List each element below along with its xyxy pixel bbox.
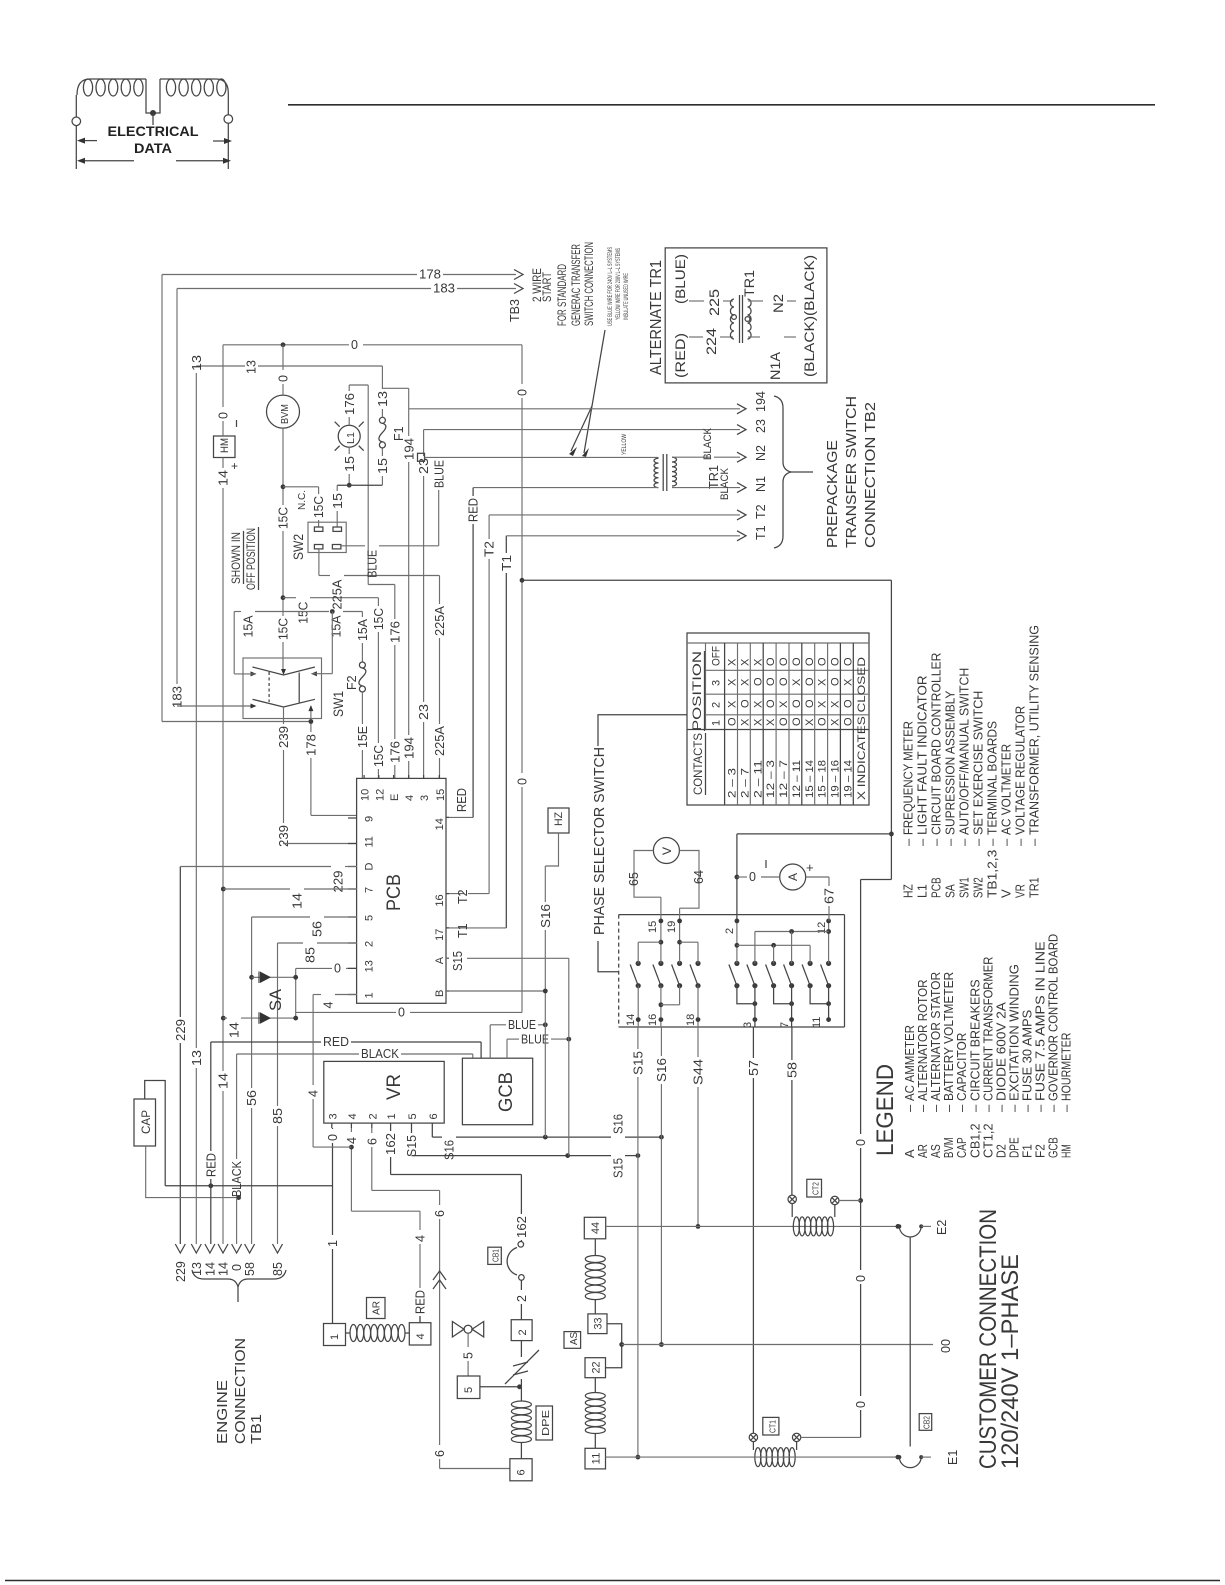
- wire net 0 to A meter minus: [737, 876, 747, 878]
- svg-text:65: 65: [627, 872, 641, 886]
- svg-text:S16: S16: [443, 1140, 457, 1160]
- svg-text:SWITCH CONNECTION: SWITCH CONNECTION: [582, 242, 596, 326]
- logo electrical-data coil right winding: [160, 79, 228, 115]
- wire 00 line (AS output): [622, 1344, 933, 1346]
- battery voltmeter BVM: [267, 395, 300, 428]
- svg-text:0: 0: [351, 338, 358, 352]
- svg-text:X: X: [765, 718, 777, 726]
- svg-text:ELECTRICAL: ELECTRICAL: [108, 124, 199, 139]
- hourmeter HM box: [214, 436, 236, 458]
- wire net 0 right bus vertical: [521, 345, 523, 384]
- svg-text:5: 5: [407, 1113, 419, 1119]
- svg-text:E1: E1: [946, 1450, 960, 1465]
- svg-text:5: 5: [462, 1352, 476, 1359]
- svg-text:BLACK: BLACK: [702, 427, 714, 460]
- switch SW2 pins: [314, 527, 323, 531]
- wire CAP top jog: [145, 1081, 166, 1186]
- svg-text:0: 0: [334, 962, 341, 976]
- svg-text:CONNECTION: CONNECTION: [233, 1338, 249, 1444]
- svg-text:HZ: HZ: [901, 884, 916, 898]
- svg-text:SW1: SW1: [957, 877, 972, 898]
- svg-text:0: 0: [516, 778, 530, 785]
- svg-text:SUPRESSION ASSEMBLY: SUPRESSION ASSEMBLY: [943, 690, 958, 835]
- label DPE box: [536, 1406, 553, 1440]
- svg-text:–: –: [1013, 838, 1028, 846]
- wire net 65 V meter: [634, 851, 661, 898]
- svg-text:2: 2: [711, 702, 723, 708]
- svg-text:176: 176: [343, 393, 357, 415]
- svg-text:12 – 11: 12 – 11: [791, 760, 803, 798]
- svg-text:85: 85: [271, 1262, 285, 1276]
- svg-text:162: 162: [515, 1216, 529, 1238]
- svg-text:0: 0: [749, 870, 756, 884]
- svg-text:TB1: TB1: [249, 1414, 265, 1444]
- label AR box: [367, 1298, 386, 1319]
- svg-text:14: 14: [203, 1262, 217, 1276]
- transformer TR1 core: [662, 454, 664, 491]
- svg-text:–: –: [999, 838, 1014, 846]
- wire net 0 branch to meters (dark): [522, 579, 891, 581]
- svg-text:TB3: TB3: [508, 299, 522, 322]
- svg-text:13: 13: [190, 355, 204, 371]
- svg-text:5: 5: [463, 1387, 475, 1393]
- svg-text:O: O: [804, 677, 816, 686]
- suppression assembly SA diode 1: [252, 976, 296, 978]
- hourmeter polarity marks: [236, 420, 238, 427]
- svg-text:AR: AR: [371, 1301, 383, 1315]
- wire net 15C branch to PCB pin 12: [283, 597, 296, 599]
- svg-text:5: 5: [364, 915, 376, 921]
- svg-text:16: 16: [647, 1014, 659, 1026]
- svg-text:15: 15: [376, 458, 390, 474]
- svg-text:–: –: [957, 838, 972, 846]
- circuit breaker CB1: [518, 1242, 524, 1248]
- svg-text:S15: S15: [632, 1051, 646, 1075]
- contacts table grid: [687, 642, 869, 644]
- svg-text:F2: F2: [345, 675, 359, 690]
- svg-text:S16: S16: [612, 1114, 626, 1134]
- selector wire 57 pin 3: [737, 986, 755, 1004]
- terminal TB2 T2 chevron: [737, 510, 746, 520]
- svg-text:–: –: [971, 838, 986, 846]
- svg-text:SHOWN IN: SHOWN IN: [229, 532, 243, 584]
- wire net 0 VR pin3 to AR box 1: [332, 1128, 334, 1129]
- svg-text:T1: T1: [754, 525, 768, 540]
- svg-text:V: V: [999, 889, 1014, 898]
- wire net RED vertical to TB1-14: [210, 1042, 212, 1151]
- wire net 176 from L1 top: [348, 385, 350, 391]
- wire net 0/1 VR pin 3 horizontal: [165, 1185, 332, 1187]
- svg-text:VR: VR: [384, 1074, 405, 1100]
- svg-text:2 – 3: 2 – 3: [727, 768, 739, 798]
- wire net 13 to F1 top: [196, 365, 245, 367]
- svg-text:A: A: [434, 956, 446, 964]
- wire net 178 (TB3 to SW1 to PCB pin 9): [161, 275, 163, 722]
- svg-text:T2: T2: [483, 541, 497, 557]
- svg-text:X: X: [752, 700, 764, 708]
- svg-text:56: 56: [311, 921, 325, 937]
- svg-text:194: 194: [402, 737, 416, 759]
- svg-text:1: 1: [364, 992, 376, 998]
- svg-text:BLUE: BLUE: [508, 1018, 536, 1032]
- svg-text:BLUE: BLUE: [432, 460, 446, 488]
- wire net 229 TB1 to PCB pin D: [179, 867, 181, 1018]
- wire net 0 bottom bus to CT1/CT2: [861, 879, 892, 881]
- svg-text:T2: T2: [754, 504, 768, 519]
- svg-text:22: 22: [591, 1362, 603, 1374]
- svg-text:O: O: [842, 699, 854, 708]
- label CB1 box: [488, 1247, 502, 1264]
- svg-text:6: 6: [516, 1469, 528, 1475]
- wire 13-194 tie jog: [382, 387, 408, 389]
- svg-text:0: 0: [516, 389, 530, 396]
- svg-text:194: 194: [754, 391, 768, 412]
- svg-text:4: 4: [415, 1333, 427, 1339]
- svg-text:S15: S15: [451, 951, 465, 971]
- svg-text:SET EXERCISE SWITCH: SET EXERCISE SWITCH: [971, 691, 986, 835]
- svg-text:15A: 15A: [356, 618, 370, 641]
- svg-text:14: 14: [217, 1262, 231, 1276]
- svg-text:E: E: [389, 794, 401, 801]
- svg-text:S15: S15: [612, 1158, 626, 1178]
- svg-text:N2: N2: [770, 294, 786, 313]
- svg-text:L1: L1: [915, 884, 930, 898]
- svg-text:183: 183: [171, 686, 185, 708]
- alternator stator AS terminal box 11: [585, 1448, 606, 1469]
- svg-text:18: 18: [685, 1014, 697, 1026]
- svg-text:X INDICATES CLOSED: X INDICATES CLOSED: [856, 657, 868, 800]
- svg-text:00: 00: [939, 1339, 953, 1353]
- breaker points symbol: [520, 1341, 522, 1357]
- svg-text:14: 14: [625, 1014, 637, 1026]
- wire net 0 top bus: [223, 344, 349, 346]
- svg-text:4: 4: [307, 1090, 321, 1097]
- svg-text:15: 15: [343, 456, 357, 472]
- svg-text:–: –: [929, 838, 944, 846]
- svg-text:HM: HM: [1059, 1144, 1074, 1158]
- wire net 15 L1 bottom / SW2 / F1: [348, 447, 350, 454]
- svg-text:X: X: [817, 678, 829, 686]
- label CB2 box: [919, 1414, 932, 1431]
- logo dimension arrows: [82, 140, 97, 142]
- svg-text:OFF POSITION: OFF POSITION: [244, 528, 258, 590]
- wire net BLACK horizontal to GCB: [237, 1053, 359, 1055]
- svg-text:BLACK: BLACK: [719, 467, 731, 500]
- svg-text:1: 1: [329, 1334, 341, 1340]
- svg-text:X: X: [727, 700, 739, 708]
- svg-text:33: 33: [593, 1318, 605, 1330]
- svg-text:–: –: [915, 838, 930, 846]
- svg-text:6: 6: [428, 1113, 440, 1119]
- current transformer CT1: [749, 1433, 757, 1441]
- svg-text:TB1,2,3: TB1,2,3: [985, 850, 1000, 898]
- svg-text:D: D: [364, 863, 376, 871]
- svg-text:–: –: [1027, 838, 1042, 846]
- svg-text:BLACK: BLACK: [230, 1160, 244, 1197]
- svg-text:120/240V 1–PHASE: 120/240V 1–PHASE: [997, 1254, 1024, 1469]
- selector wire S44 pin 18: [697, 986, 699, 1027]
- svg-text:14: 14: [217, 470, 231, 486]
- fuse F1: [379, 417, 385, 423]
- svg-text:X: X: [727, 678, 739, 686]
- svg-text:–: –: [1059, 1104, 1074, 1112]
- svg-text:PCB: PCB: [929, 877, 944, 898]
- svg-text:HM: HM: [219, 438, 231, 453]
- svg-text:BLACK: BLACK: [361, 1047, 400, 1061]
- svg-text:O: O: [817, 717, 829, 726]
- svg-text:13: 13: [190, 1050, 204, 1066]
- svg-text:BVM: BVM: [279, 404, 291, 424]
- svg-text:YELLOW WIRE FOR 208V L–L SYSTE: YELLOW WIRE FOR 208V L–L SYSTEMS: [616, 248, 622, 320]
- wire net 64 V meter: [679, 851, 699, 909]
- wire net S16 VR pin6: [431, 1128, 433, 1137]
- svg-text:15C: 15C: [312, 496, 326, 518]
- switch SW2 box: [308, 522, 346, 552]
- terminal TB2 N2 chevron: [737, 452, 746, 462]
- svg-text:USE BLUE WIRE FOR 240V L–L SYS: USE BLUE WIRE FOR 240V L–L SYSTEMS: [608, 247, 614, 326]
- svg-text:O: O: [791, 657, 803, 666]
- svg-text:X: X: [739, 658, 751, 666]
- terminal TB2 T1 chevron: [737, 531, 746, 541]
- svg-text:TRANSFER SWITCH: TRANSFER SWITCH: [843, 396, 860, 548]
- svg-text:85: 85: [304, 947, 318, 963]
- svg-text:TRANSFORMER, UTILITY SENSING: TRANSFORMER, UTILITY SENSING: [1027, 625, 1042, 835]
- stator AS coil lower: [594, 1378, 596, 1393]
- wire net 0 stub to BVM: [282, 345, 284, 370]
- circuit breaker CB2 on E1: [897, 1455, 901, 1459]
- svg-text:BLUE: BLUE: [366, 550, 380, 578]
- wire net 15E F2 to PCB pin 10: [361, 692, 363, 724]
- svg-text:–: –: [985, 838, 1000, 846]
- svg-text:13: 13: [364, 960, 376, 972]
- svg-text:4: 4: [345, 1137, 359, 1144]
- wire net S16 from PCB pin B / HZ: [446, 990, 545, 992]
- svg-text:0: 0: [854, 1139, 868, 1146]
- svg-text:TR1: TR1: [741, 270, 757, 297]
- svg-text:ALTERNATE TR1: ALTERNATE TR1: [648, 260, 665, 375]
- switch SW1 box: [243, 658, 322, 719]
- svg-text:12 – 7: 12 – 7: [778, 760, 790, 798]
- svg-text:56: 56: [245, 1090, 259, 1106]
- svg-text:0: 0: [326, 1134, 340, 1141]
- svg-text:O: O: [817, 657, 829, 666]
- svg-text:N1A: N1A: [767, 351, 783, 380]
- alternator rotor AR terminal box 4: [409, 1323, 431, 1345]
- svg-text:12: 12: [816, 922, 828, 934]
- svg-text:INSULATE UNUSED WIRE: INSULATE UNUSED WIRE: [624, 273, 630, 320]
- svg-text:S16: S16: [655, 1058, 669, 1082]
- wire net 15C BVM to SW1: [282, 428, 284, 505]
- svg-text:13: 13: [376, 391, 390, 407]
- svg-text:O: O: [842, 657, 854, 666]
- svg-text:19 – 16: 19 – 16: [830, 760, 842, 798]
- terminal TB2 N1 chevron: [737, 483, 746, 493]
- alternator rotor AR terminal box 1: [324, 1324, 346, 1346]
- wire net 14 HM to TB1: [222, 458, 224, 469]
- wire net BLUE GCB to S15: [506, 1039, 508, 1058]
- svg-text:RED: RED: [204, 1153, 218, 1177]
- bottom horizontal rule: [5, 1580, 1220, 1582]
- selector wire S16 pin 16: [660, 986, 662, 1027]
- wire net 85 TB1 to PCB pin 2: [277, 943, 279, 1106]
- svg-text:X: X: [727, 658, 739, 666]
- svg-text:19: 19: [666, 921, 678, 933]
- svg-text:CB1: CB1: [491, 1249, 501, 1262]
- svg-text:2 – 7: 2 – 7: [739, 768, 751, 798]
- terminal TB2 23 chevron: [737, 425, 746, 435]
- svg-text:T1: T1: [500, 555, 514, 571]
- svg-text:T1: T1: [456, 923, 470, 938]
- svg-text:N1: N1: [754, 476, 768, 492]
- controller PCB box: [357, 778, 446, 1003]
- svg-text:14: 14: [434, 818, 446, 830]
- svg-text:FOR STANDARD: FOR STANDARD: [555, 264, 569, 326]
- svg-text:POSITION: POSITION: [690, 651, 704, 731]
- svg-text:4: 4: [347, 1113, 359, 1119]
- svg-text:17: 17: [434, 929, 446, 941]
- svg-text:X: X: [739, 678, 751, 686]
- svg-text:HZ: HZ: [553, 812, 565, 826]
- svg-text:4: 4: [414, 1235, 428, 1242]
- svg-text:15C: 15C: [372, 608, 386, 630]
- svg-text:14: 14: [291, 893, 305, 909]
- wire net 56 TB1-58 to PCB pin 5: [251, 917, 253, 1088]
- svg-text:0: 0: [854, 1401, 868, 1408]
- svg-text:CIRCUIT BOARD CONTROLLER: CIRCUIT BOARD CONTROLLER: [929, 653, 944, 835]
- fuse F2: [361, 612, 363, 618]
- svg-text:+: +: [806, 860, 814, 875]
- svg-text:–: –: [901, 838, 916, 846]
- top horizontal rule: [288, 104, 1155, 106]
- svg-text:14: 14: [228, 1022, 242, 1038]
- svg-text:TR1: TR1: [1027, 877, 1042, 898]
- svg-text:0: 0: [217, 412, 231, 419]
- wire CAP bottom to BLACK net: [146, 1146, 239, 1198]
- svg-text:GCB: GCB: [496, 1072, 517, 1112]
- breaker CB2 tie line: [909, 1238, 911, 1447]
- logo electrical-data coil left winding: [75, 95, 77, 117]
- svg-text:15 – 14: 15 – 14: [804, 760, 816, 798]
- wire net BLUE GCB to S16: [489, 1025, 491, 1058]
- wire net 0 lower horizontal to PCB pin 13: [296, 1011, 396, 1013]
- selector wire net 12/67: [828, 921, 830, 964]
- svg-text:ENGINE: ENGINE: [215, 1380, 231, 1444]
- svg-text:AUTO/OFF/MANUAL SWITCH: AUTO/OFF/MANUAL SWITCH: [957, 668, 972, 835]
- selector wire S15 pin 14: [637, 986, 639, 1027]
- wire net BLACK vertical to TB1-0: [236, 1054, 238, 1159]
- svg-text:1: 1: [711, 720, 723, 726]
- svg-text:178: 178: [305, 734, 319, 756]
- wire TR1 secondary to TB2 N1 (BLACK): [672, 487, 740, 489]
- svg-text:15A: 15A: [330, 615, 344, 638]
- alternator stator AS terminal box 44: [584, 1217, 605, 1239]
- svg-text:O: O: [739, 699, 751, 708]
- terminal TB3 178 chevron: [514, 270, 523, 280]
- svg-text:O: O: [791, 699, 803, 708]
- svg-text:O: O: [791, 717, 803, 726]
- svg-text:162: 162: [384, 1133, 398, 1155]
- svg-text:CAP: CAP: [139, 1110, 153, 1134]
- terminal board TB1 chevrons: [175, 1244, 185, 1253]
- svg-text:11: 11: [364, 836, 376, 847]
- svg-text:O: O: [727, 717, 739, 726]
- svg-text:58: 58: [243, 1262, 257, 1276]
- svg-text:PHASE SELECTOR SWITCH: PHASE SELECTOR SWITCH: [591, 747, 608, 935]
- svg-text:11: 11: [591, 1453, 603, 1465]
- selector wire 58 pin 7: [774, 986, 792, 1004]
- svg-text:AC VOLTMETER: AC VOLTMETER: [999, 744, 1014, 835]
- svg-text:0: 0: [854, 1275, 868, 1282]
- svg-text:FREQUENCY METER: FREQUENCY METER: [901, 721, 916, 835]
- svg-text:X: X: [739, 718, 751, 726]
- svg-text:85: 85: [271, 1108, 285, 1124]
- selector left bank switches: [636, 961, 641, 966]
- label AS box: [564, 1332, 581, 1349]
- svg-text:6: 6: [433, 1450, 447, 1457]
- label CT1 box: [763, 1417, 779, 1435]
- svg-text:15 – 18: 15 – 18: [817, 760, 829, 798]
- svg-text:PCB: PCB: [384, 874, 405, 911]
- svg-text:3: 3: [327, 1113, 339, 1119]
- svg-text:6: 6: [433, 1210, 447, 1217]
- svg-text:X: X: [842, 678, 854, 686]
- wire net 183 (TB3 to SW1): [176, 289, 178, 685]
- svg-text:13: 13: [245, 360, 259, 374]
- svg-text:PREPACKAGE: PREPACKAGE: [824, 440, 841, 548]
- svg-text:CONNECTION TB2: CONNECTION TB2: [862, 402, 879, 548]
- svg-text:–: –: [943, 838, 958, 846]
- svg-text:15: 15: [647, 921, 659, 933]
- svg-text:225: 225: [706, 289, 722, 316]
- svg-text:57: 57: [747, 1060, 761, 1076]
- svg-text:2: 2: [724, 928, 736, 934]
- selector wire net 2: [736, 921, 738, 964]
- svg-text:225A: 225A: [433, 605, 447, 636]
- phase selector switch box: [619, 914, 845, 916]
- svg-text:A: A: [786, 873, 800, 881]
- svg-text:64: 64: [692, 870, 706, 884]
- svg-text:2 – 11: 2 – 11: [752, 760, 764, 798]
- svg-text:O: O: [752, 677, 764, 686]
- switch SW1 gang links: [268, 672, 270, 702]
- svg-text:15E: 15E: [356, 726, 370, 748]
- svg-text:13: 13: [190, 1262, 204, 1276]
- svg-text:RED: RED: [323, 1035, 349, 1049]
- wire E1 line from box 11: [606, 1456, 900, 1458]
- wire net RED horizontal to GCB: [211, 1041, 321, 1043]
- svg-text:O: O: [765, 699, 777, 708]
- alternate secondary wires N2 N1A: [748, 300, 763, 302]
- svg-text:O: O: [842, 717, 854, 726]
- svg-text:3: 3: [742, 1022, 754, 1028]
- wire net 6 VR pin2 to DPE box 6: [371, 1128, 373, 1133]
- terminal box 6: [510, 1459, 532, 1481]
- wire net 23 PCB pin 3 to TB2: [423, 430, 425, 456]
- alternator stator AS terminal box 33: [588, 1314, 607, 1334]
- svg-text:9: 9: [364, 816, 376, 822]
- svg-text:S16: S16: [539, 904, 553, 928]
- svg-text:SW2: SW2: [290, 534, 306, 560]
- wire net 2 CB1 to box 2: [520, 1280, 522, 1290]
- svg-text:14: 14: [217, 1073, 231, 1089]
- svg-text:L1: L1: [346, 432, 357, 444]
- leader to selector box: [598, 941, 619, 972]
- label CT2 box: [807, 1179, 822, 1197]
- wire net S15 VR pin5: [411, 1128, 413, 1133]
- switch SW1 lower pole blade: [253, 699, 315, 707]
- switch SW1 upper pole blade: [253, 667, 315, 675]
- brace TB1: [192, 1270, 286, 1287]
